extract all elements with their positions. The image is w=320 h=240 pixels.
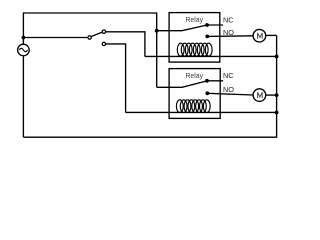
wire relay K2 NO to motor M2 — [207, 93, 253, 95]
wire switch upper contact to relay K1 coil — [106, 32, 145, 57]
relay K2 NC contact — [205, 79, 209, 83]
wire AC bottom lead — [22, 56, 24, 137]
svg-text:NO: NO — [223, 85, 234, 94]
wire switch lower contact to relay K2 coil — [106, 44, 126, 113]
wire AC to switch pole — [23, 37, 87, 39]
wire bottom return bus — [23, 35, 276, 137]
node junction right bus K1 coil — [275, 55, 279, 59]
wire relay K2 coil feed through to right bus — [126, 111, 277, 113]
svg-text:NO: NO — [223, 28, 234, 37]
switch S1 pole — [88, 36, 91, 39]
relay K1 blade — [157, 25, 207, 31]
svg-text:NC: NC — [223, 15, 234, 24]
node junction at AC to switch branch — [22, 36, 26, 40]
motor M1 — [253, 29, 266, 42]
wire relay K1 NC stub — [207, 24, 223, 26]
wire relay K1 coil feed through to right bus — [145, 55, 277, 57]
wire motor M1 to right bus — [266, 34, 277, 36]
relay K2 coil — [176, 100, 210, 113]
relay K1 box — [169, 13, 220, 63]
relay K2 NO contact — [205, 91, 209, 95]
svg-text:Relay: Relay — [185, 15, 203, 24]
relay K2 box — [169, 69, 220, 119]
switch S1 lower contact — [102, 42, 105, 45]
relay K1 NO contact — [205, 35, 209, 39]
wire top bus from AC source to relays feed — [23, 13, 156, 87]
relay K1 coil — [177, 43, 212, 56]
node junction right bus motor M2 — [275, 93, 279, 97]
wire relay K1 NO to motor M1 — [207, 35, 253, 38]
svg-text:NC: NC — [223, 71, 234, 80]
switch S1 upper contact — [102, 30, 105, 33]
svg-text:Relay: Relay — [185, 71, 203, 80]
wire motor M2 to right bus — [266, 94, 277, 96]
relay K2 blade — [157, 81, 207, 87]
node junction feed to relay K1 common — [155, 29, 159, 33]
relay K1 NC contact — [205, 23, 209, 27]
switch S1 blade — [92, 32, 103, 36]
ac source V1 — [18, 44, 30, 56]
wire relay K2 NC stub — [207, 80, 223, 82]
node junction right bus K2 coil — [275, 111, 279, 115]
motor M2 — [253, 89, 266, 102]
